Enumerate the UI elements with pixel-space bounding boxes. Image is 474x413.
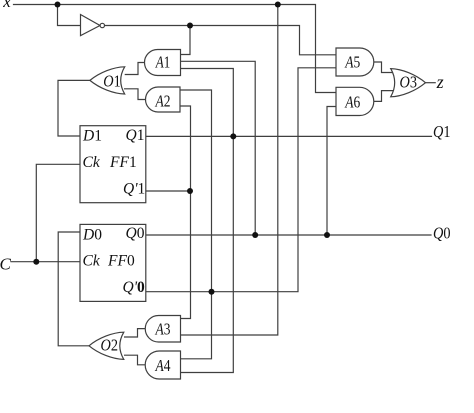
svg-text:D1: D1 [82,128,102,145]
svg-text:A1: A1 [155,52,170,71]
svg-text:x: x [2,0,11,11]
svg-text:Q1: Q1 [433,122,451,141]
svg-text:Q0: Q0 [433,223,451,242]
svg-text:O2: O2 [101,336,119,355]
svg-text:A6: A6 [344,93,360,112]
svg-text:A4: A4 [155,356,171,375]
svg-text:A2: A2 [155,91,171,110]
svg-text:A5: A5 [344,53,360,72]
svg-text:A3: A3 [155,320,171,339]
svg-text:O3: O3 [400,73,418,92]
svg-text:Q0: Q0 [126,225,145,242]
svg-text:Q1: Q1 [126,127,145,144]
svg-text:FF1: FF1 [109,154,137,171]
svg-text:Q'0: Q'0 [123,279,146,296]
svg-text:Ck: Ck [83,154,101,171]
svg-text:O1: O1 [103,71,121,90]
svg-text:FF0: FF0 [107,253,135,270]
svg-text:C: C [0,254,12,273]
svg-text:Ck: Ck [83,253,101,270]
svg-text:D0: D0 [82,227,102,244]
svg-text:z: z [436,72,444,92]
svg-text:Q'1: Q'1 [123,180,145,197]
